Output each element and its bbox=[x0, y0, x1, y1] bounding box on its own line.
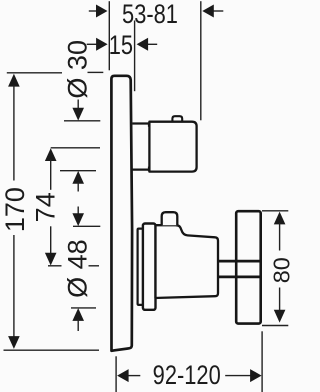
dimension 80: dimension line with arrows bbox=[274, 212, 286, 225]
dimension 15: right arrow bbox=[146, 43, 157, 45]
svg-text:80: 80 bbox=[268, 257, 294, 283]
dimension 170: dimension line with arrows bbox=[8, 74, 20, 87]
dimension Ø48: bottom extension line bbox=[71, 307, 96, 309]
thermostat cartridge neck top line bbox=[133, 122, 151, 124]
cross handle bar bbox=[236, 211, 261, 323]
dimension 53-81: right arrow bbox=[214, 10, 224, 12]
thermostat cartridge body bbox=[149, 122, 196, 172]
dimension Ø30: top extension line bbox=[64, 120, 100, 122]
dimension 92-120: left arrow bbox=[117, 369, 129, 382]
svg-text:Ø 30: Ø 30 bbox=[63, 40, 93, 99]
dimension 80: bottom extension line bbox=[262, 325, 288, 327]
thermostat safety-stop tab bbox=[172, 116, 182, 122]
dimension 74: dimension line with arrows bbox=[45, 148, 57, 161]
dimension Ø30: bottom extension line bbox=[60, 170, 96, 172]
dimension 92-120: left extension line bbox=[115, 356, 117, 392]
neck joint nub bottom bbox=[148, 167, 151, 172]
handle stem bottom line bbox=[218, 275, 261, 278]
dimension 53-81: right extension line bbox=[200, 1, 202, 120]
handle stem top line bbox=[218, 260, 261, 263]
thermostat cartridge neck bottom line bbox=[133, 169, 151, 171]
valve escutcheon sleeve bbox=[138, 229, 143, 305]
dimension Ø48: top extension line bbox=[73, 225, 100, 227]
dimension 15: left extension line bbox=[134, 21, 136, 92]
svg-text:170: 170 bbox=[0, 187, 30, 232]
dimension 74: top extension line bbox=[51, 147, 100, 149]
svg-text:15: 15 bbox=[109, 31, 133, 61]
dimension Ø48: top arrow bbox=[77, 207, 79, 216]
dimension 15: left arrow bbox=[87, 43, 98, 45]
dimension Ø30: bottom arrow bbox=[72, 171, 84, 184]
svg-text:53-81: 53-81 bbox=[122, 0, 178, 30]
valve stop tab bbox=[162, 212, 178, 225]
neck joint nub top bbox=[148, 122, 151, 126]
dimension 53-81: left extension line bbox=[108, 1, 110, 70]
dimension 74: bottom extension line (two pieces) bbox=[48, 265, 62, 267]
dimension 92-120: right extension line bbox=[261, 331, 263, 392]
svg-text:Ø 48: Ø 48 bbox=[63, 239, 93, 298]
valve body bbox=[156, 225, 219, 298]
dimension Ø30: top arrow bbox=[77, 100, 79, 111]
svg-text:74: 74 bbox=[31, 192, 61, 222]
dimension Ø48: bottom arrow bbox=[72, 308, 84, 321]
dimension 53-81: left arrow bbox=[89, 10, 98, 12]
dimension 92-120: right arrow bbox=[225, 375, 251, 377]
dimension 170: bottom extension line bbox=[4, 349, 100, 351]
dimension 80: top extension line bbox=[262, 210, 288, 212]
dimension 170: top extension line bbox=[7, 72, 62, 74]
wall plate (side view) bbox=[111, 76, 132, 351]
valve escutcheon flange bbox=[143, 224, 156, 310]
svg-text:92-120: 92-120 bbox=[153, 361, 221, 391]
